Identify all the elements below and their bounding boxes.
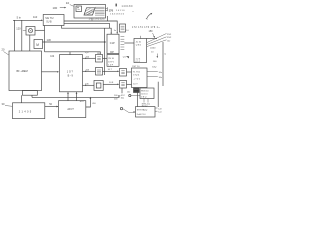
svg-text:⊥⊤0 1: ⊥⊤0 1 — [133, 77, 141, 80]
svg-text:21405: 21405 — [19, 109, 33, 113]
wires B2 right edge to arrow bar — [106, 7, 108, 11]
svg-text:DP: DP — [110, 51, 114, 54]
wire: from B3 bottom to buffer top — [29, 35, 31, 51]
verticals B21 to text block — [144, 99, 148, 103]
svg-text:Y1 Y01: Y1 Y01 — [133, 71, 141, 73]
small labels left — [114, 95, 118, 100]
svg-text:4x 10: 4x 10 — [136, 42, 142, 44]
wire: vertical from input wire down to buffer top (left) — [14, 20, 16, 51]
small text left of B19 top — [123, 56, 129, 58]
svg-text:1 0 1 1 0: 1 0 1 1 0 — [116, 10, 125, 12]
svg-text:C-0: C-0 — [158, 112, 162, 114]
wire B3 to vertical bus — [35, 29, 45, 31]
svg-text:C1P: C1P — [110, 42, 115, 45]
svg-text:C-8: C-8 — [158, 108, 162, 110]
wire B8 right up to long line — [86, 97, 91, 107]
svg-text:S in: S in — [17, 16, 22, 20]
wire B11 to right small box B16 with label — [103, 82, 119, 85]
svg-text:10 8: 10 8 — [109, 82, 114, 84]
svg-text:1 B Q: 1 B Q — [141, 96, 147, 98]
svg-text:Q100: Q100 — [150, 47, 156, 49]
svg-text:Q: Q — [164, 54, 166, 56]
bottom-right output labels — [155, 108, 162, 114]
svg-text:1 0 P: 1 0 P — [108, 64, 113, 66]
bottom-left box B6 — [13, 103, 45, 119]
svg-text:CD: CD — [167, 40, 171, 42]
vertical bus x=104.5 — [104, 28, 106, 75]
label 20 with leader — [2, 48, 9, 56]
labels right of B19 — [147, 72, 163, 80]
tick above RF box top — [139, 36, 141, 39]
right-mid small labels and arrows — [150, 47, 166, 68]
svg-text:10: 10 — [151, 52, 154, 54]
svg-text:B - 9: B - 9 — [68, 74, 74, 77]
small block 140 (B12) with dark cell — [120, 24, 126, 32]
disc prism glyph — [84, 8, 95, 15]
svg-text:C0 D 4: C0 D 4 — [141, 93, 148, 95]
text row C labels 140 180 — [116, 4, 134, 8]
squiggle label 15 top right — [146, 13, 152, 20]
wire buffer B5 to processor B7 — [42, 71, 60, 73]
svg-text:1 6 1 1 6 2 15 1: 1 6 1 1 6 2 15 1 — [89, 19, 106, 21]
svg-text:10x: 10x — [121, 97, 125, 99]
DSP column box B9 — [96, 55, 103, 63]
svg-text:SIG TIU: SIG TIU — [45, 18, 54, 20]
wire ladder to RF box — [124, 42, 134, 44]
svg-text:100: 100 — [114, 98, 118, 100]
dense text block between B21 and B22 — [142, 103, 150, 107]
right small box B15 — [120, 69, 127, 77]
wire B5b to long line — [31, 95, 33, 97]
svg-text:10: 10 — [126, 30, 129, 32]
svg-text:20: 20 — [2, 48, 5, 52]
svg-text:STR RA1Q: STR RA1Q — [137, 109, 148, 112]
svg-text:130: 130 — [47, 38, 52, 42]
servo box B14 below driver — [107, 54, 119, 66]
svg-text:120: 120 — [16, 27, 21, 31]
svg-text:10b: 10b — [50, 56, 55, 58]
label 30 with leader — [2, 102, 13, 107]
DSP column box B11 (box in box) — [94, 81, 103, 91]
svg-text:10: 10 — [66, 1, 70, 5]
wire line1 from B1 to small block (top bus) — [64, 21, 117, 33]
wire B16 down to CC cluster — [121, 88, 123, 93]
svg-text:SU B: SU B — [46, 22, 52, 24]
svg-text:410: 410 — [92, 103, 96, 105]
svg-text:1 4 0 1 8 0: 1 4 0 1 8 0 — [122, 6, 134, 8]
svg-text:1Q2: 1Q2 — [85, 52, 90, 54]
svg-text:1 O ?: 1 O ? — [67, 70, 74, 73]
svg-text:BF +MEM: BF +MEM — [17, 70, 28, 73]
left wires into B21 with circle — [127, 91, 140, 97]
svg-text:172 174 176 178 1¬: 172 174 176 178 1¬ — [132, 27, 160, 29]
svg-text:M: M — [36, 43, 39, 47]
tall driver box B13 — [107, 34, 119, 54]
stream box B22 — [136, 107, 156, 117]
wire B18 right with label 150 — [147, 30, 158, 38]
svg-text:1NT 10: 1NT 10 — [132, 66, 140, 68]
svg-text:DaB 21 4: DaB 21 4 — [137, 114, 147, 116]
wire line1b second parallel line — [64, 23, 110, 28]
spindle motor block 120 (box B3 with circle glyph) — [26, 27, 35, 36]
ladder / flexible cable right of B13 — [121, 37, 125, 50]
wire tick into processor top — [69, 52, 71, 55]
svg-text:100: 100 — [153, 61, 157, 63]
wire line4 lower distribution line — [45, 52, 101, 55]
label 120 — [16, 27, 26, 31]
svg-text:1a: 1a — [114, 30, 117, 32]
svg-text:170: 170 — [109, 8, 114, 12]
svg-text:50: 50 — [49, 103, 52, 106]
codec box B21 — [140, 88, 154, 99]
block 110 signal-processing box B1 — [43, 15, 64, 26]
svg-text:100: 100 — [114, 95, 118, 97]
svg-text:150: 150 — [149, 30, 154, 33]
DSP column box B10 — [96, 68, 103, 76]
diagonal arrow bottom-left of B22 — [120, 107, 135, 113]
svg-text:30: 30 — [2, 102, 5, 106]
AFC bottom-center box B8 — [59, 101, 86, 118]
dark hatched box B20 — [134, 88, 140, 93]
wire: vertical from B1 bottom down left bus — [44, 26, 46, 52]
coil hatch in optical unit — [95, 7, 105, 15]
svg-text:10x: 10x — [159, 77, 163, 79]
interface box B19 — [132, 68, 148, 88]
svg-text:Q B 1: Q B 1 — [136, 44, 142, 46]
svg-text:DV1: DV1 — [167, 34, 172, 36]
wire B6 to AFC box with label 50 — [45, 103, 59, 107]
svg-text:10 Y: 10 Y — [133, 84, 138, 86]
svg-text:SV 10: SV 10 — [108, 58, 115, 60]
CC output cluster (dark) — [118, 95, 125, 99]
long bottom distribution line — [32, 96, 120, 98]
svg-text:DV2: DV2 — [167, 37, 172, 39]
svg-text:AFC?: AFC? — [67, 108, 74, 111]
small sub box under buffer B5b — [22, 91, 37, 96]
inner laser box — [76, 6, 82, 12]
buffer memory tall box B5 — [9, 51, 42, 91]
svg-text:Q1: Q1 — [123, 56, 127, 58]
fan leader lines to output labels — [147, 34, 167, 47]
wire B5b to bottom-left box — [21, 95, 23, 103]
svg-text:1 6 4 1 6 5 1 6: 1 6 4 1 6 5 1 6 — [110, 13, 125, 15]
svg-text:**: ** — [132, 11, 134, 13]
RF amp box B18 — [134, 39, 147, 64]
svg-text:1TQ 4: 1TQ 4 — [133, 75, 140, 77]
wire line3 from motor to tall driver box with label 130 — [43, 38, 107, 43]
label 10 — [66, 1, 74, 6]
svg-text:10Q: 10Q — [152, 66, 156, 68]
svg-text:D R V: D R V — [108, 61, 114, 63]
right vertical wires — [162, 42, 164, 86]
svg-text:110: 110 — [33, 15, 38, 19]
right small box B16 — [120, 81, 127, 89]
wires B8 up to B7 with arrows — [67, 92, 69, 101]
svg-text:10 7: 10 7 — [108, 69, 113, 71]
motor block 130 (box B4 with M glyph) — [34, 40, 43, 49]
tick from B2 bottom to line1 — [91, 18, 93, 21]
svg-text:NVG 10: NVG 10 — [141, 91, 149, 93]
optical pickup unit outer box B2 — [74, 5, 106, 19]
wire B9 to servo box — [103, 57, 108, 59]
vertical B20 down to B22 — [137, 93, 139, 107]
main processor box B7 — [60, 55, 83, 92]
label 100 with leader arrow to optical unit — [53, 6, 67, 10]
wire line2 from B1 bottom to tall box top — [62, 26, 112, 35]
wire B10 to right small box B15 with label — [103, 69, 120, 72]
wire B16 to interface box — [127, 83, 132, 85]
wires processor B7 to column boxes with labels — [83, 56, 96, 59]
svg-text:10x: 10x — [127, 92, 131, 94]
svg-text:100: 100 — [53, 6, 58, 10]
input wire into B1 — [13, 20, 43, 22]
wire from optical unit right edge down to line1 — [107, 16, 109, 21]
svg-text:E10: E10 — [80, 101, 85, 103]
wire: second vertical to buffer top — [21, 20, 23, 51]
wire B15 to interface box — [127, 71, 132, 73]
svg-text:10x: 10x — [159, 72, 163, 74]
